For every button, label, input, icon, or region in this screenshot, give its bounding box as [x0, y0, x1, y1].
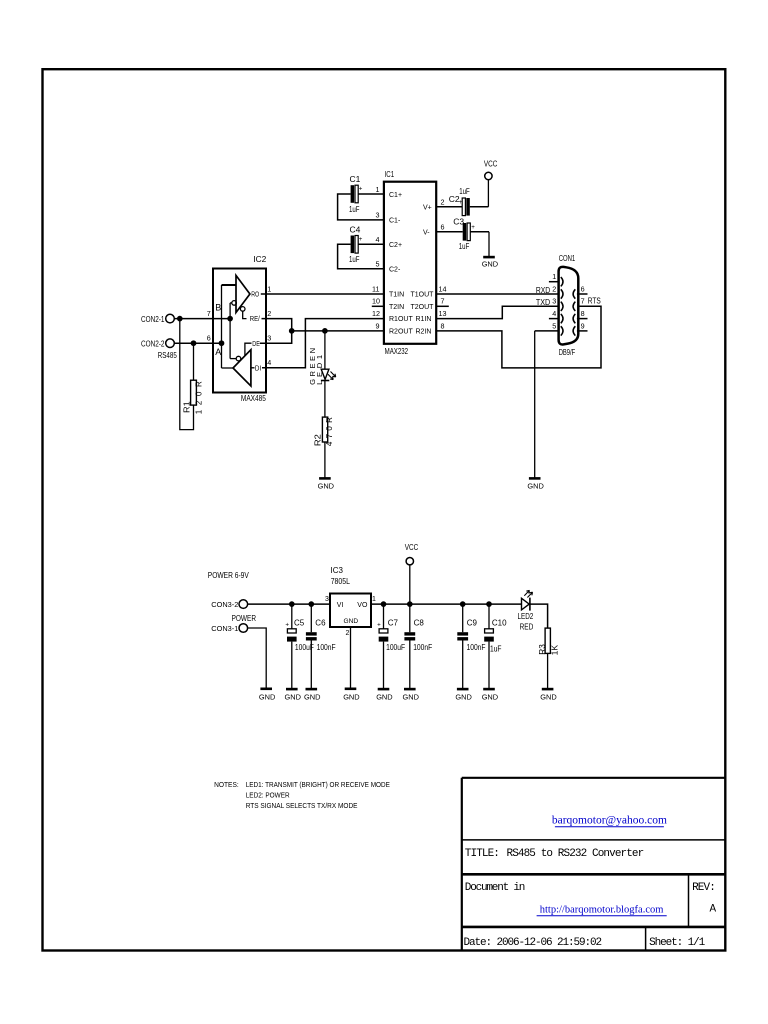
- svg-text:VO: VO: [357, 602, 368, 609]
- 7805L value label: [331, 577, 351, 586]
- svg-text:8: 8: [441, 321, 445, 330]
- wire LED1 branch down: [324, 331, 326, 369]
- IC1 inner pin name T2OUT: [411, 304, 435, 311]
- R1 designator: [183, 401, 192, 413]
- ground symbol (R3): [540, 689, 556, 701]
- svg-text:1uF: 1uF: [349, 254, 360, 264]
- svg-text:C6: C6: [315, 618, 326, 627]
- wire CON2-1 to pin7 B: [174, 318, 230, 320]
- svg-text:14: 14: [439, 284, 447, 293]
- svg-text:R2OUT: R2OUT: [389, 329, 413, 336]
- C1 value 1uF: [349, 204, 360, 214]
- svg-text:2: 2: [552, 284, 556, 293]
- C9 designator: [467, 618, 478, 627]
- DB9 pin4 stub: [549, 318, 560, 320]
- resistor R1: [191, 380, 197, 405]
- svg-text:GND: GND: [318, 481, 334, 490]
- ground symbol (CON3-1): [259, 689, 275, 702]
- svg-text:IC2: IC2: [253, 254, 266, 264]
- pin number 1 (IC2): [267, 284, 271, 293]
- IC2 label: [253, 254, 266, 264]
- ground symbol (C6): [304, 689, 320, 701]
- wire R1IN to DB9 pin3 (TXD net): [436, 306, 558, 318]
- capacitor C7: [379, 604, 389, 688]
- R1 value 120R: [195, 381, 204, 414]
- pin label B: [215, 303, 221, 313]
- svg-text:+: +: [359, 186, 363, 193]
- svg-text:RS485 to RS232 Converter: RS485 to RS232 Converter: [507, 848, 644, 860]
- IC1 inner pin name R1IN: [416, 316, 432, 323]
- connector CON3-1: [239, 624, 248, 633]
- wire IC3 ground pin: [350, 627, 352, 688]
- note line 2: [246, 791, 290, 800]
- IC1 label: [385, 169, 395, 179]
- POWER label: [232, 614, 257, 623]
- ground symbol (C9): [455, 689, 471, 701]
- IC3 pin name VO: [357, 602, 368, 609]
- RTS net label: [588, 297, 601, 306]
- svg-text:12: 12: [372, 309, 380, 318]
- IC1 inner pin name C2-: [389, 266, 401, 273]
- C5 polarity plus: [285, 621, 289, 628]
- svg-text:GND: GND: [482, 260, 498, 269]
- wire R2OUT pin9: [292, 330, 384, 332]
- R3 designator: [538, 644, 547, 655]
- pin label A: [215, 347, 221, 357]
- svg-text:GND: GND: [403, 692, 419, 701]
- wire T1OUT to DB9 pin2 (RXD net): [436, 293, 558, 295]
- Sheet field: [649, 937, 706, 949]
- svg-text:CON3-2: CON3-2: [211, 600, 238, 609]
- wire RO to T1IN (net RO): [261, 293, 384, 295]
- svg-text:13: 13: [439, 309, 447, 318]
- capacitor C9: [457, 604, 468, 688]
- svg-text:3: 3: [376, 210, 380, 219]
- svg-text:3: 3: [552, 297, 556, 306]
- svg-text:7805L: 7805L: [331, 577, 351, 586]
- IC3 pin name GND: [344, 618, 359, 625]
- svg-text:11: 11: [372, 284, 379, 293]
- svg-text:1: 1: [552, 272, 556, 281]
- pin number 7 (IC1): [441, 297, 445, 306]
- svg-text:GND: GND: [482, 692, 498, 701]
- svg-text:C2-: C2-: [389, 266, 401, 273]
- wire A-net to driver output tip: [222, 367, 234, 369]
- svg-text:1uF: 1uF: [490, 644, 502, 653]
- svg-text:C1: C1: [350, 174, 361, 184]
- ground symbol (DB9): [527, 478, 543, 490]
- svg-text:MAX232: MAX232: [385, 346, 409, 356]
- wire LED1 to R2: [324, 381, 326, 418]
- svg-text:C7: C7: [388, 618, 399, 627]
- svg-text:C8: C8: [414, 618, 425, 627]
- C4 value 1uF: [349, 254, 360, 264]
- svg-text:GND: GND: [304, 692, 320, 701]
- C3 designator: [453, 217, 464, 227]
- TXD net label: [536, 298, 550, 307]
- svg-text:T2OUT: T2OUT: [411, 304, 435, 311]
- svg-text:IC1: IC1: [385, 169, 395, 179]
- wire DE enable to driver: [245, 343, 252, 356]
- svg-text:GND: GND: [259, 692, 275, 701]
- junction on CON2-1 wire: [177, 316, 182, 321]
- svg-text:CON1: CON1: [559, 254, 576, 263]
- svg-text:C10: C10: [492, 618, 507, 627]
- svg-text:1uF: 1uF: [349, 204, 360, 214]
- svg-text:1: 1: [372, 596, 376, 603]
- svg-text:VCC: VCC: [484, 159, 498, 168]
- IC1 inner pin name T2IN: [389, 304, 404, 311]
- junction rail/VCC/C8: [407, 602, 412, 607]
- resistor R2: [322, 417, 327, 442]
- svg-text:RED: RED: [520, 623, 534, 632]
- svg-text:+: +: [359, 236, 363, 243]
- pin number 6 (IC2): [207, 334, 211, 343]
- pin number 9 (IC1): [376, 321, 380, 330]
- IC1 inner pin name V-: [423, 229, 430, 236]
- IC1 inner pin name T1IN: [389, 292, 404, 299]
- C7 polarity plus: [377, 621, 381, 628]
- pin number 13 (IC1): [439, 309, 447, 318]
- svg-text:A: A: [710, 904, 717, 916]
- pin number 3 (IC1): [376, 210, 380, 219]
- note line 1: [246, 780, 390, 789]
- Document in field: [465, 882, 525, 894]
- C7 designator: [388, 618, 399, 627]
- svg-text:9: 9: [581, 321, 585, 330]
- title text RS485 to RS232 Converter: [507, 848, 644, 860]
- svg-text:RS485: RS485: [158, 350, 177, 360]
- R3 value 1K: [550, 644, 559, 655]
- DB9 pin number 2: [552, 284, 556, 293]
- svg-text:RTS SIGNAL SELECTS TX/RX MODE: RTS SIGNAL SELECTS TX/RX MODE: [246, 801, 358, 810]
- svg-text:100nF: 100nF: [317, 643, 336, 652]
- svg-text:+: +: [377, 621, 381, 628]
- svg-text:RXD: RXD: [536, 286, 550, 295]
- pin label RE/: [250, 314, 261, 323]
- svg-text:R1OUT: R1OUT: [389, 316, 413, 323]
- IC2 MAX485 body: [213, 269, 266, 393]
- C2 value 1uF: [459, 186, 470, 196]
- IC1 inner pin name V+: [423, 204, 432, 211]
- email link barqomotor@yahoo.com: [552, 815, 667, 827]
- IC1 inner pin name R2IN: [416, 329, 432, 336]
- svg-text:8: 8: [581, 309, 585, 318]
- RXD net label: [536, 286, 550, 295]
- ground symbol (R2): [318, 478, 334, 490]
- capacitor C3: [436, 223, 489, 241]
- wire A-net vertical inside IC2: [221, 285, 223, 368]
- DB9 pin number 4: [552, 309, 556, 318]
- svg-text:4: 4: [267, 358, 271, 367]
- wire RE/ pin2 to DE pin3: [260, 319, 292, 344]
- wire B-net down-around to R1 bottom: [180, 319, 194, 430]
- IC3 pin number 3: [325, 596, 329, 603]
- pin number 11 (IC1): [372, 284, 379, 293]
- svg-text:4: 4: [552, 309, 556, 318]
- DB9 pin number 1: [552, 272, 556, 281]
- LED1 designator: [315, 355, 324, 385]
- svg-text:+: +: [471, 224, 475, 231]
- svg-text:POWER: POWER: [232, 614, 257, 623]
- wire CON2-2 to pin6 A: [174, 342, 221, 344]
- capacitor C5: [287, 604, 297, 688]
- svg-text:RO: RO: [251, 290, 259, 299]
- svg-text:VI: VI: [337, 602, 344, 609]
- DB9 pin1 stub: [549, 281, 560, 283]
- pin number 12 (IC1): [372, 309, 380, 318]
- IC1 inner pin name T1OUT: [411, 292, 435, 299]
- ground symbol (IC3): [343, 689, 359, 702]
- svg-text:R2IN: R2IN: [416, 329, 432, 336]
- svg-text:7: 7: [441, 297, 445, 306]
- C8 value 100nF: [413, 643, 432, 652]
- DB9 pin number 3: [552, 297, 556, 306]
- DB9 pin9 stub: [577, 330, 588, 332]
- note line 3: [246, 801, 358, 810]
- stub T2IN pin 10: [372, 305, 384, 307]
- svg-text:CON3-1: CON3-1: [211, 624, 238, 633]
- connector CON1 DB9/F shell: [559, 267, 579, 345]
- DB9 pin5 wire to ground: [535, 330, 560, 332]
- driver amp inside U2: [233, 350, 251, 386]
- svg-text:TXD: TXD: [536, 298, 550, 307]
- svg-text:Date: 2006-12-06 21:59:02: Date: 2006-12-06 21:59:02: [464, 937, 602, 949]
- capacitor C10: [484, 604, 494, 688]
- junction A-net on pin6 line: [219, 341, 224, 346]
- C10 designator: [492, 618, 507, 627]
- svg-text:C1-: C1-: [389, 217, 401, 224]
- DB9 pin6 stub: [577, 293, 588, 295]
- junction on CON2-2 wire: [191, 341, 196, 346]
- IC3 pin number 2: [346, 630, 350, 637]
- DB9 female contact arcs right column pins 6-9: [573, 289, 575, 335]
- REV field label: [692, 882, 715, 894]
- svg-text:R1: R1: [183, 401, 192, 413]
- ground symbol (C3): [482, 257, 498, 268]
- svg-text:2: 2: [267, 309, 271, 318]
- CON1 label: [559, 254, 576, 263]
- C4 designator: [350, 225, 361, 235]
- svg-text:9: 9: [376, 321, 380, 330]
- C3 polarity plus: [471, 224, 475, 231]
- junction rail/C10: [487, 602, 492, 607]
- svg-text:C1+: C1+: [389, 192, 402, 199]
- junction R2OUT / LED1 branch: [323, 329, 328, 334]
- IC1 inner pin name R1OUT: [389, 316, 413, 323]
- svg-text:3: 3: [267, 334, 271, 343]
- pin number 2 (IC2): [267, 309, 271, 318]
- C6 value 100nF: [317, 643, 336, 652]
- pin number 3 (IC2): [267, 334, 271, 343]
- svg-text:RE/: RE/: [250, 314, 261, 323]
- svg-text:1: 1: [267, 284, 271, 293]
- svg-text:V+: V+: [423, 204, 432, 211]
- LED1 color label GREEN: [308, 348, 317, 385]
- CON3-2 label: [211, 600, 238, 609]
- svg-text:1uF: 1uF: [459, 241, 470, 251]
- svg-text:REV:: REV:: [692, 882, 715, 894]
- MAX485 value label: [241, 393, 266, 403]
- svg-text:DE: DE: [252, 339, 259, 348]
- svg-text:C3: C3: [453, 217, 464, 227]
- svg-text:POWER 6-9V: POWER 6-9V: [208, 571, 250, 580]
- drawing border frame (unlabeled decorative): [43, 69, 726, 950]
- junction rail/C7: [381, 602, 386, 607]
- POWER 6-9V label: [208, 571, 250, 580]
- ground symbol (C10): [482, 689, 498, 701]
- wire output rail IC3 to LED2: [371, 603, 522, 605]
- connector CON2-1: [166, 314, 175, 323]
- regulator IC3 7805L body: [330, 594, 371, 628]
- svg-text:VCC: VCC: [405, 543, 419, 552]
- svg-text:1K: 1K: [550, 644, 559, 655]
- IC3 pin name VI: [337, 602, 344, 609]
- svg-text:V-: V-: [423, 229, 430, 236]
- inverting input bubble of receiver: [230, 301, 236, 306]
- C8 designator: [414, 618, 425, 627]
- svg-text:LED1: TRANSMIT (BRIGHT) OR REC: LED1: TRANSMIT (BRIGHT) OR RECEIVE MODE: [246, 780, 390, 789]
- RE/ enable bubble on receiver: [240, 307, 246, 319]
- wire VCC to C2: [487, 180, 489, 207]
- pin number 10 (IC1): [372, 297, 380, 306]
- svg-text:C4: C4: [350, 225, 361, 235]
- ground symbol (C8): [403, 689, 419, 701]
- connector CON3-2: [239, 600, 248, 609]
- svg-text:RTS: RTS: [588, 297, 601, 306]
- svg-text:100uF: 100uF: [386, 643, 405, 652]
- CON2-2 label: [141, 339, 165, 348]
- svg-text:GND: GND: [455, 692, 471, 701]
- Date field: [464, 937, 602, 949]
- svg-text:3: 3: [325, 596, 329, 603]
- svg-text:DB9/F: DB9/F: [559, 348, 576, 357]
- capacitor C8: [404, 604, 415, 688]
- wire CON3-1 to ground: [248, 628, 267, 688]
- IC1 inner pin name C2+: [389, 242, 402, 249]
- pin label DE: [252, 339, 259, 348]
- pin number 4 (IC1): [376, 235, 380, 244]
- ground symbol (C7): [376, 689, 392, 701]
- DB9/F value label: [559, 348, 576, 357]
- C2 designator: [449, 194, 460, 204]
- capacitor C2: [436, 198, 488, 216]
- stub T2OUT pin 7: [436, 305, 449, 307]
- svg-text:5: 5: [552, 321, 556, 330]
- C2 polarity plus: [459, 199, 463, 206]
- C5 value 100uF: [295, 643, 314, 652]
- IC1 inner pin name C1+: [389, 192, 402, 199]
- svg-text:6: 6: [441, 223, 445, 232]
- C1 polarity plus: [359, 186, 363, 193]
- C10 value 1uF: [490, 644, 502, 653]
- svg-text:6: 6: [581, 284, 585, 293]
- svg-text:DI: DI: [255, 364, 261, 373]
- C3 value 1uF: [459, 241, 470, 251]
- junction R2OUT / RE-DE: [289, 329, 294, 334]
- power flag VCC (top): [484, 159, 498, 179]
- DB9 pin number 5: [552, 321, 556, 330]
- DB9 pin number 8: [581, 309, 585, 318]
- DB9 pin number 7: [581, 297, 585, 306]
- svg-text:+: +: [285, 621, 289, 628]
- svg-text:B: B: [215, 303, 221, 313]
- svg-text:C9: C9: [467, 618, 478, 627]
- C1 designator: [350, 174, 361, 184]
- ground symbol (C5): [285, 689, 301, 701]
- C7 value 100uF: [386, 643, 405, 652]
- pin label DI: [255, 364, 261, 373]
- power flag VCC (bottom): [405, 543, 419, 565]
- svg-text:GND: GND: [540, 692, 556, 701]
- capacitor C1: [338, 185, 384, 220]
- capacitor C6: [306, 604, 317, 688]
- svg-text:GND: GND: [527, 481, 543, 490]
- pin number 4 (IC2): [267, 358, 271, 367]
- svg-text:LED2: POWER: LED2: POWER: [246, 791, 290, 800]
- DB9 female contact arcs left column pins 1-5: [561, 277, 563, 336]
- svg-text:2: 2: [346, 630, 350, 637]
- note heading NOTES:: [214, 780, 239, 789]
- svg-text:A: A: [215, 347, 221, 357]
- C6 designator: [315, 618, 326, 627]
- IC1 MAX232 body: [384, 182, 436, 344]
- R2 designator: [314, 433, 323, 446]
- svg-text:T2IN: T2IN: [389, 304, 404, 311]
- junction rail/C6: [309, 602, 314, 607]
- svg-text:4: 4: [376, 235, 380, 244]
- title block outer border: [462, 778, 726, 951]
- C5 designator: [294, 618, 305, 627]
- svg-text:5: 5: [376, 259, 380, 268]
- wire A-net to receiver input: [222, 284, 237, 286]
- svg-text:100nF: 100nF: [467, 643, 486, 652]
- svg-text:CON2-2: CON2-2: [141, 339, 165, 348]
- svg-text:10: 10: [372, 297, 380, 306]
- IC1 inner pin name C1-: [389, 217, 401, 224]
- svg-text:Sheet: 1/1: Sheet: 1/1: [649, 937, 706, 949]
- svg-text:6: 6: [207, 334, 211, 343]
- svg-text:T1IN: T1IN: [389, 292, 404, 299]
- svg-text:IC3: IC3: [331, 566, 344, 575]
- R2 value 470R: [325, 417, 334, 446]
- svg-text:R2: R2: [314, 433, 323, 446]
- inverting output bubble of driver: [230, 356, 241, 361]
- svg-text:http://barqomotor.blogfa.com: http://barqomotor.blogfa.com: [540, 905, 664, 916]
- C9 value 100nF: [467, 643, 486, 652]
- svg-text:Document in: Document in: [465, 882, 525, 894]
- pin number 14 (IC1): [439, 284, 447, 293]
- wire R2 to ground: [324, 442, 326, 478]
- svg-text:GND: GND: [285, 692, 301, 701]
- junction rail/C9: [460, 602, 465, 607]
- svg-text:R1IN: R1IN: [416, 316, 432, 323]
- svg-text:C5: C5: [294, 618, 305, 627]
- LED2 color label RED: [520, 623, 534, 632]
- wire R1OUT to DI: [262, 319, 384, 368]
- svg-text:MAX485: MAX485: [241, 393, 266, 403]
- IC1 inner pin name R2OUT: [389, 329, 413, 336]
- LED LED1: [321, 369, 336, 380]
- svg-text:7: 7: [581, 297, 585, 306]
- revision value A: [710, 904, 717, 916]
- wire LED2 to R3: [530, 604, 548, 628]
- TITLE field label: [465, 848, 499, 860]
- wire DI stub from driver: [251, 367, 255, 369]
- wire C3 to ground: [488, 232, 490, 256]
- svg-text:LED2: LED2: [518, 612, 534, 621]
- C4 polarity plus: [359, 236, 363, 243]
